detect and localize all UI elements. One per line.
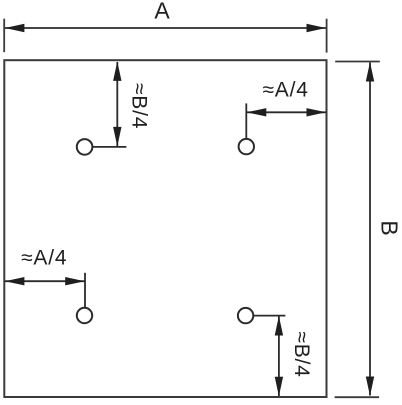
dimension A/4 top-right line <box>247 111 326 113</box>
dimension B extension line bottom <box>335 396 380 398</box>
svg-text:B: B <box>377 220 402 235</box>
hole top-left <box>77 139 93 155</box>
dimension B line <box>369 63 371 396</box>
svg-text:A: A <box>154 0 170 23</box>
dimension A/4 bottom-left arrow left <box>5 277 25 285</box>
dimension A/4 top-right arrow left <box>247 108 266 116</box>
leader line hole top-right <box>245 103 247 138</box>
leader line hole top-left <box>93 146 127 148</box>
hole bottom-left <box>77 308 92 323</box>
hole top-right <box>239 139 254 154</box>
dimension B/4 top-left arrow up <box>113 61 121 81</box>
dimension A line <box>5 27 326 29</box>
svg-text:≈B/4: ≈B/4 <box>127 83 150 129</box>
svg-text:≈A/4: ≈A/4 <box>21 246 67 269</box>
dimension B extension line top <box>335 61 380 63</box>
leader line hole bottom-left <box>84 273 86 308</box>
plate outline <box>4 60 326 397</box>
dimension B/4 bottom-right arrow down <box>275 377 283 397</box>
dimension A extension line right <box>326 19 328 53</box>
leader line hole bottom-right <box>254 315 286 317</box>
svg-text:≈B/4: ≈B/4 <box>290 331 313 377</box>
dimension A arrow left <box>5 24 25 32</box>
dimension B arrow up <box>366 62 374 82</box>
dimension B arrow down <box>366 377 374 397</box>
dimension B/4 bottom-right line <box>278 316 280 396</box>
dimension A/4 top-right arrow right <box>307 108 327 116</box>
dimension A/4 bottom-left line <box>5 280 85 282</box>
dimension B/4 bottom-right arrow up <box>275 316 283 336</box>
dimension B/4 top-left arrow down <box>113 127 121 146</box>
dimension B/4 top-left line <box>116 62 118 146</box>
dimension A/4 bottom-left arrow right <box>65 277 85 285</box>
svg-text:≈A/4: ≈A/4 <box>262 79 308 102</box>
dimension A arrow right <box>307 24 327 32</box>
dimension A extension line left <box>3 19 5 53</box>
hole bottom-right <box>238 308 253 323</box>
